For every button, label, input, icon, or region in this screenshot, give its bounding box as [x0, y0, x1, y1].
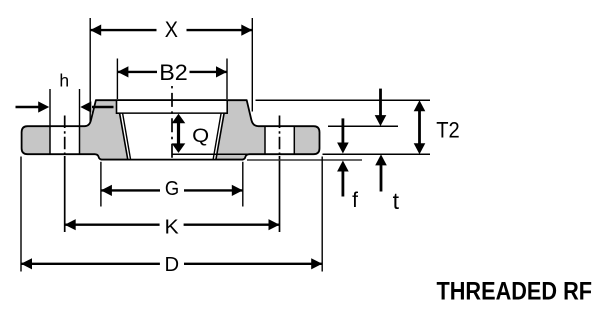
- B2 extension line right: [226, 59, 228, 100]
- G extension line left: [100, 162, 102, 207]
- B2 arrow right: [216, 66, 227, 77]
- D dimension line: [21, 263, 160, 265]
- flange body section (gray): [22, 100, 320, 159]
- K dimension line: [65, 223, 160, 225]
- main centerline: [171, 86, 173, 161]
- svg-text:THREADED RF: THREADED RF: [437, 278, 593, 306]
- f up arrow: [341, 166, 344, 197]
- B2 extension line left: [116, 59, 118, 100]
- thread flank right inner: [213, 113, 221, 159]
- G arrow right: [232, 185, 243, 196]
- svg-text:G: G: [165, 178, 179, 200]
- X extension line right: [251, 18, 253, 112]
- bolt hole left (white cut): [50, 127, 80, 153]
- K arrow left: [65, 219, 76, 230]
- h extension line left: [49, 89, 51, 126]
- svg-text:B2: B2: [159, 60, 188, 85]
- svg-text:h: h: [59, 71, 69, 91]
- hub top reference line: [256, 99, 431, 101]
- bolt centerline left: [64, 116, 66, 157]
- Q reference line: [172, 153, 251, 155]
- t down arrow: [379, 89, 382, 120]
- f down arrow: [341, 118, 344, 148]
- B2 dimension line: [117, 71, 157, 73]
- B2 arrow left: [117, 66, 128, 77]
- svg-text:D: D: [165, 253, 180, 276]
- bolt hole right (white cut): [265, 127, 294, 153]
- G dimension line: [101, 189, 160, 191]
- svg-text:T2: T2: [436, 117, 460, 142]
- svg-text:Q: Q: [192, 125, 209, 147]
- D arrow right: [311, 258, 322, 269]
- thread flank left outer: [120, 113, 128, 159]
- G extension line right: [242, 162, 244, 207]
- bolt centerline right: [279, 116, 281, 157]
- thread counterbore band: [117, 100, 228, 113]
- Q dimension double arrow: [177, 118, 180, 149]
- D arrow left: [21, 258, 32, 269]
- X extension line left: [89, 18, 91, 122]
- svg-text:X: X: [165, 17, 178, 42]
- svg-text:t: t: [393, 188, 400, 214]
- h arrow left: [16, 106, 40, 108]
- svg-text:f: f: [352, 189, 358, 212]
- bolt hole right edges: [264, 126, 266, 156]
- X arrow left: [90, 25, 101, 36]
- bolt hole left edges: [49, 126, 51, 156]
- t up arrow: [380, 160, 383, 192]
- plate bottom reference line: [323, 153, 431, 155]
- raised face reference line (f): [247, 159, 362, 161]
- h arrow right: [92, 106, 114, 108]
- svg-text:K: K: [165, 217, 180, 239]
- plate top reference line: [328, 125, 398, 127]
- T2 double arrow: [418, 104, 421, 151]
- K arrow right: [269, 219, 280, 230]
- G arrow left: [101, 185, 112, 196]
- raised face bottom edge across bore: [101, 159, 243, 161]
- thread flank left inner: [123, 113, 131, 159]
- D extension line right: [321, 157, 323, 272]
- h extension line right: [79, 89, 81, 126]
- D extension line left: [20, 157, 22, 272]
- bore cavity (white): [120, 114, 225, 159]
- X dimension line: [90, 29, 156, 31]
- thread flank right outer: [216, 113, 224, 159]
- X arrow right: [241, 25, 252, 36]
